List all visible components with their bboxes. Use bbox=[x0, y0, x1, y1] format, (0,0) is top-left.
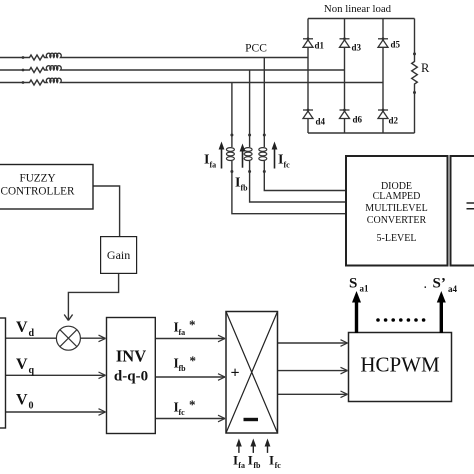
svg-text:CONVERTER: CONVERTER bbox=[367, 215, 427, 226]
svg-text:*: * bbox=[190, 353, 197, 368]
svg-text:a4: a4 bbox=[448, 284, 458, 294]
svg-text:V: V bbox=[16, 319, 28, 336]
svg-text:PCC: PCC bbox=[245, 43, 267, 55]
svg-text:V: V bbox=[16, 392, 28, 409]
svg-text:R: R bbox=[421, 61, 430, 75]
svg-text:d: d bbox=[29, 328, 35, 339]
svg-text:Non linear load: Non linear load bbox=[324, 3, 392, 15]
svg-text:*: * bbox=[189, 317, 196, 332]
svg-text:fb: fb bbox=[253, 461, 261, 470]
svg-text:I: I bbox=[269, 452, 274, 467]
svg-text:+: + bbox=[231, 365, 240, 382]
svg-text:0: 0 bbox=[29, 401, 34, 412]
svg-text:S’: S’ bbox=[433, 276, 446, 292]
svg-text:I: I bbox=[233, 452, 238, 467]
svg-text:I: I bbox=[248, 452, 253, 467]
svg-text:d4: d4 bbox=[316, 117, 326, 127]
svg-text:d-q-0: d-q-0 bbox=[114, 369, 148, 385]
svg-text:d3: d3 bbox=[352, 43, 362, 53]
svg-text:HCPWM: HCPWM bbox=[360, 353, 440, 377]
svg-text:fc: fc bbox=[275, 461, 282, 470]
svg-text:fa: fa bbox=[179, 328, 186, 337]
svg-text:S: S bbox=[349, 276, 357, 292]
svg-text:d2: d2 bbox=[389, 116, 399, 126]
svg-text:CLAMPED: CLAMPED bbox=[373, 191, 421, 202]
svg-text:a1: a1 bbox=[360, 284, 370, 294]
svg-text:CONTROLLER: CONTROLLER bbox=[1, 186, 75, 198]
svg-text:d6: d6 bbox=[353, 115, 363, 125]
svg-text:FUZZY: FUZZY bbox=[19, 173, 55, 185]
svg-text:fa: fa bbox=[238, 461, 245, 470]
svg-text:d5: d5 bbox=[391, 40, 401, 50]
svg-text:fc: fc bbox=[179, 408, 186, 417]
svg-text:MULTILEVEL: MULTILEVEL bbox=[365, 203, 427, 214]
svg-text:fc: fc bbox=[284, 161, 291, 170]
svg-text:fb: fb bbox=[241, 184, 249, 193]
svg-text:V: V bbox=[16, 356, 28, 373]
svg-text:q: q bbox=[29, 365, 35, 376]
svg-text:INV: INV bbox=[116, 347, 146, 366]
svg-text:fb: fb bbox=[179, 364, 187, 373]
svg-text:5-LEVEL: 5-LEVEL bbox=[377, 233, 417, 244]
svg-text:fa: fa bbox=[210, 161, 217, 170]
svg-text:*: * bbox=[189, 397, 196, 412]
svg-text:d1: d1 bbox=[315, 41, 325, 51]
svg-text:Gain: Gain bbox=[107, 248, 130, 262]
